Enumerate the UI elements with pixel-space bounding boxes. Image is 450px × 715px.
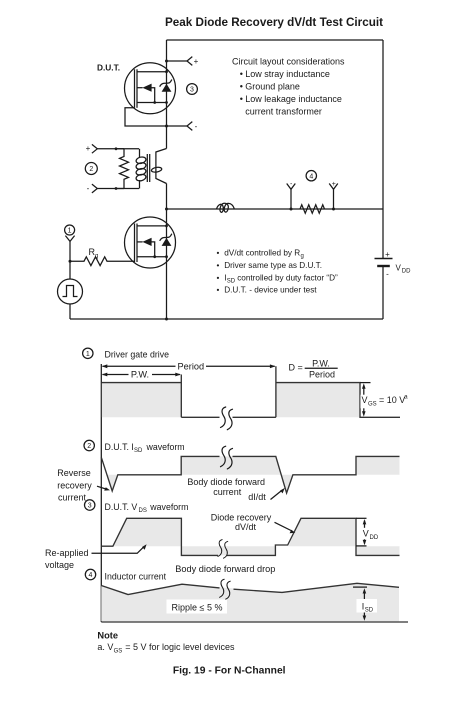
svg-text:•: • (217, 249, 220, 258)
waveform 1 pulse 2 fill (276, 383, 360, 418)
svg-text:•: • (217, 261, 220, 270)
svg-text:Ground plane: Ground plane (245, 81, 300, 91)
svg-text:+: + (385, 250, 390, 259)
waveform 4 fill (101, 583, 399, 621)
svg-text:•: • (217, 286, 220, 295)
dimension line Period (103, 365, 275, 367)
svg-text:1: 1 (68, 228, 72, 235)
wire: sense probe + (333, 189, 335, 209)
svg-text:3: 3 (88, 503, 92, 510)
svg-text:•: • (240, 81, 243, 91)
resistor R (transformer damping) (116, 149, 129, 189)
svg-text:DD: DD (402, 269, 411, 275)
svg-text:SD: SD (227, 279, 236, 285)
node: bus/middle line junction (165, 208, 168, 211)
svg-text:voltage: voltage (45, 560, 74, 570)
node label circled 3 (187, 84, 198, 95)
wire: transformer - input lead (92, 184, 97, 193)
svg-text:= 5 V for logic level devices: = 5 V for logic level devices (125, 642, 235, 652)
wire: right frame line upper (to battery +) (382, 40, 384, 258)
pulse generator V1 (58, 279, 83, 304)
svg-text:Period: Period (309, 369, 335, 379)
waveform 1 pulse 1 fill (102, 383, 181, 418)
wire: right frame line lower (battery - to bottom) (382, 267, 384, 320)
svg-text:Diode recovery: Diode recovery (211, 513, 272, 523)
transformer core (147, 154, 149, 182)
node: bus/bottom line junction (165, 318, 168, 321)
svg-text:SD: SD (365, 608, 374, 614)
svg-text:+: + (332, 181, 336, 188)
wire: middle horizontal line (167, 208, 384, 210)
dimension line P.W. (103, 374, 181, 376)
waveform 2 second band fill (356, 456, 400, 474)
svg-text:SD: SD (134, 448, 143, 454)
svg-text:Body diode forward: Body diode forward (187, 477, 265, 487)
waveform 3 strip fill 2 (356, 546, 400, 555)
node label circled 2 (waveform) (84, 440, 94, 450)
wire: main vertical bus upper segment (166, 40, 168, 149)
node: resistor bottom junction (115, 187, 118, 190)
node label circled 1 (waveform) (83, 348, 93, 358)
svg-text:D.U.T. I: D.U.T. I (105, 442, 134, 452)
node label circled 3 (waveform) (85, 500, 95, 510)
svg-text:+: + (86, 144, 91, 153)
svg-text:1: 1 (86, 351, 90, 358)
waveform 3 second pulse fill (289, 518, 357, 546)
waveform 3 strip fill 1 (181, 546, 275, 555)
break symbol waveform 1 (221, 407, 233, 430)
node label circled 4 (306, 171, 316, 181)
wire: main vertical bus lower segment (166, 184, 168, 320)
svg-text:•: • (217, 273, 220, 282)
inductor L1 (217, 203, 235, 212)
svg-text:dI/dt: dI/dt (248, 492, 266, 502)
wire: pulse generator to bottom line (69, 304, 71, 319)
dimension VDD (356, 517, 367, 519)
svg-text:DD: DD (370, 535, 379, 541)
label: test condition bullet list (217, 249, 339, 295)
svg-text:Circuit layout considerations: Circuit layout considerations (232, 56, 345, 66)
label: circuit layout considerations box text (232, 56, 345, 116)
svg-text:GS: GS (368, 401, 377, 407)
node: D.U.T. source terminal junction (165, 125, 168, 128)
transistor Q1 D.U.T. (MOSFET with body diode) (125, 63, 176, 114)
svg-text:current: current (213, 487, 242, 497)
inductor: transformer primary winding (139, 149, 141, 158)
transformer T1 (86, 144, 167, 193)
svg-text:4: 4 (309, 173, 313, 180)
waveform 4 trace (101, 583, 399, 594)
svg-text:Re-applied: Re-applied (45, 548, 89, 558)
svg-text:GS: GS (114, 648, 123, 654)
wire: D.U.T. gate-to-source tie (125, 108, 167, 126)
svg-text:Driver same type as D.U.T.: Driver same type as D.U.T. (224, 261, 322, 270)
break symbol waveform 2 (221, 446, 233, 469)
break symbol waveform 4 (220, 579, 231, 599)
svg-text:Period: Period (178, 361, 205, 371)
svg-text:Inductor current: Inductor current (105, 571, 167, 581)
svg-text:V: V (362, 395, 368, 405)
svg-text:Ripple ≤ 5 %: Ripple ≤ 5 % (172, 602, 223, 612)
arrow from re-applied voltage (92, 547, 144, 553)
svg-text:Reverse: Reverse (57, 468, 91, 478)
svg-text:D.U.T.: D.U.T. (97, 63, 120, 73)
svg-text:dV/dt controlled by R: dV/dt controlled by R (224, 249, 300, 258)
waveform 3 first pulse fill (113, 518, 181, 546)
svg-text:Low leakage inductance: Low leakage inductance (245, 94, 342, 104)
wire: drain probe terminal + (167, 60, 188, 62)
arrow to reverse recovery spike (97, 486, 106, 489)
waveform 2 body diode band fill (181, 456, 293, 493)
svg-text:3: 3 (190, 87, 194, 94)
svg-text:P.W.: P.W. (131, 369, 149, 379)
waveform 2 trace (101, 456, 399, 493)
svg-text:a. V: a. V (97, 642, 113, 652)
wire: bottom frame line (70, 318, 383, 320)
node: resistor top junction (115, 147, 118, 150)
node label circled 1 (65, 225, 75, 235)
node: current sense resistor right junction (332, 208, 335, 211)
wire: sense probe - (290, 189, 292, 209)
waveform 1 trace (101, 366, 400, 417)
inductor: transformer secondary single turn (156, 149, 167, 184)
label: Ripple <= 5 % (167, 600, 228, 614)
svg-text:V: V (396, 264, 402, 273)
break symbol waveform 3 (218, 540, 228, 559)
svg-text:Driver gate drive: Driver gate drive (105, 349, 170, 359)
svg-text:•: • (240, 94, 243, 104)
svg-text:Note: Note (97, 631, 118, 641)
node: current sense resistor left junction (290, 208, 293, 211)
svg-text:current transformer: current transformer (245, 107, 322, 117)
transistor Q2 driver (MOSFET with body diode) (125, 217, 176, 268)
svg-text:current: current (58, 492, 87, 502)
svg-text:dV/dt: dV/dt (235, 522, 257, 532)
svg-text:= 10 V: = 10 V (379, 395, 405, 405)
svg-text:V: V (363, 529, 369, 539)
node label circled 2 (85, 163, 97, 175)
node: D.U.T. drain terminal junction (165, 60, 168, 63)
svg-text:waveform: waveform (149, 502, 188, 512)
svg-text:g: g (301, 254, 304, 260)
svg-text:controlled by duty factor “D”: controlled by duty factor “D” (237, 273, 338, 282)
svg-text:Body diode forward drop: Body diode forward drop (175, 564, 275, 574)
waveform 3 trace (101, 518, 399, 555)
dimension ISD (353, 586, 367, 588)
waveform 4 baseline (101, 621, 408, 623)
svg-text:D.U.T. - device under test: D.U.T. - device under test (224, 286, 317, 295)
node: gate drive junction (69, 260, 72, 263)
waveform 2 reverse recovery spike fill (107, 475, 118, 491)
svg-text:D.U.T. V: D.U.T. V (105, 502, 138, 512)
svg-text:P.W.: P.W. (312, 358, 330, 368)
dimension VGS level (360, 382, 371, 384)
svg-text:2: 2 (87, 443, 91, 450)
svg-text:Low stray inductance: Low stray inductance (245, 69, 330, 79)
resistor R (current sense) (300, 205, 325, 213)
wire: gate probe terminal (65, 236, 74, 242)
wire: transformer + input lead (92, 144, 97, 153)
svg-text:•: • (240, 69, 243, 79)
wire: top frame line (167, 39, 384, 41)
svg-text:recovery: recovery (57, 480, 92, 490)
battery VDD (375, 258, 393, 260)
svg-text:-: - (87, 184, 90, 193)
svg-text:Fig. 19 - For N-Channel: Fig. 19 - For N-Channel (173, 666, 286, 677)
resistor RG (70, 257, 135, 266)
svg-text:D =: D = (289, 363, 303, 373)
svg-text:+: + (194, 57, 199, 66)
svg-text:DS: DS (139, 508, 147, 514)
svg-text:Peak Diode Recovery dV/dt Test: Peak Diode Recovery dV/dt Test Circuit (165, 16, 383, 29)
node label circled 4 (waveform) (85, 569, 95, 579)
svg-text:-: - (386, 270, 389, 279)
svg-text:g: g (95, 254, 98, 260)
wire: probe node to pulse generator (69, 261, 71, 279)
svg-text:-: - (195, 122, 198, 131)
wire: source probe terminal - (167, 125, 188, 127)
svg-text:waveform: waveform (146, 442, 185, 452)
svg-text:2: 2 (89, 166, 93, 173)
waveform axis line (100, 364, 102, 622)
svg-text:4: 4 (89, 572, 93, 579)
